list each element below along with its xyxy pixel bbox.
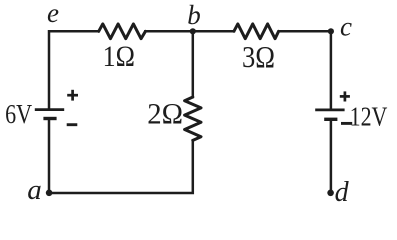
node d junction dot xyxy=(327,190,334,197)
svg-text:1Ω: 1Ω xyxy=(103,41,135,73)
wire: 3-ohm to node c xyxy=(279,30,331,33)
resistor R 1 ohm zigzag xyxy=(99,24,146,39)
battery V1 6V plates xyxy=(35,110,64,119)
resistor R 3 ohm zigzag xyxy=(234,24,279,39)
wire: top-left corner e to 1-ohm, and left vertical down to battery xyxy=(49,31,99,108)
plus sign of 6V battery xyxy=(67,90,78,101)
wire: bottom from node a to middle branch corner xyxy=(49,140,193,193)
wire: node b down to 2-ohm xyxy=(192,31,195,97)
svg-text:12V: 12V xyxy=(350,101,388,131)
node c junction dot xyxy=(328,28,334,34)
wire: 1-ohm to node b to 3-ohm xyxy=(145,30,234,33)
svg-text:a: a xyxy=(27,174,42,206)
wire: node c down to 12V battery top xyxy=(330,31,333,108)
minus sign of 12V battery xyxy=(341,122,352,125)
wire: 6V battery bottom down to node a xyxy=(48,120,51,193)
svg-text:b: b xyxy=(187,0,201,30)
svg-text:e: e xyxy=(47,0,59,28)
svg-text:2Ω: 2Ω xyxy=(147,99,183,131)
battery V2 12V plates xyxy=(315,110,344,119)
svg-text:3Ω: 3Ω xyxy=(242,40,275,74)
resistor R 2 ohm vertical zigzag xyxy=(185,97,201,140)
svg-text:d: d xyxy=(335,177,350,208)
plus sign of 12V battery xyxy=(340,91,350,101)
minus sign of 6V battery xyxy=(67,123,78,126)
svg-text:c: c xyxy=(340,11,352,41)
node b junction dot xyxy=(190,28,196,34)
svg-text:6V: 6V xyxy=(5,99,32,129)
wire: 12V battery bottom down to node d xyxy=(330,121,333,191)
node a junction dot xyxy=(46,190,53,197)
